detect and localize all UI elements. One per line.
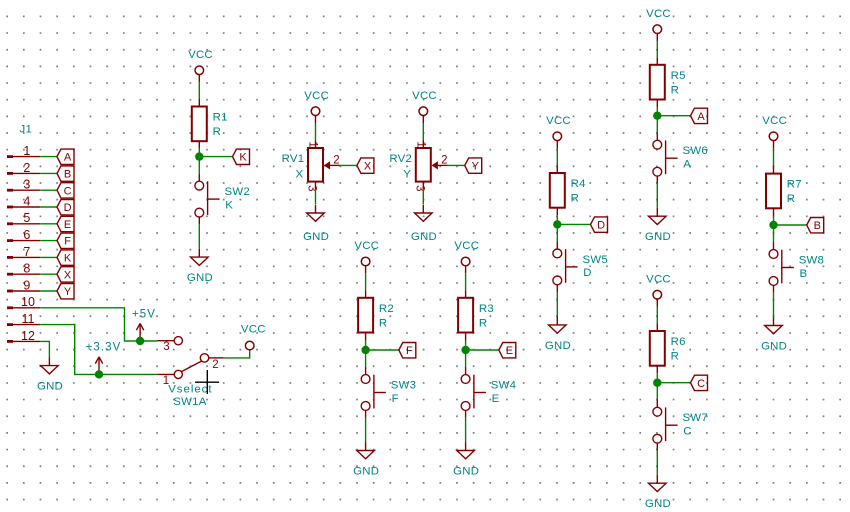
power +3.3V	[86, 341, 122, 374]
power VCC (RV1)	[304, 90, 329, 123]
svg-text:VCC: VCC	[241, 324, 266, 336]
switch SW8	[769, 242, 824, 293]
svg-text:R: R	[213, 126, 221, 138]
svg-text:VCC: VCC	[762, 115, 787, 127]
editor crosshair cursor	[195, 370, 219, 394]
connector J1 pin 10	[7, 295, 40, 309]
node junction (+3.3V rail)	[95, 370, 103, 378]
svg-text:GND: GND	[545, 340, 571, 352]
svg-text:R2: R2	[379, 303, 394, 315]
svg-text:VCC: VCC	[646, 8, 671, 20]
power VCC (R4 column)	[546, 115, 571, 148]
svg-text:GND: GND	[453, 466, 479, 478]
global label D (J1 pin 4)	[57, 200, 74, 215]
wire	[365, 340, 367, 367]
svg-text:12: 12	[21, 329, 35, 343]
svg-text:K: K	[225, 199, 233, 211]
wire	[556, 148, 558, 165]
svg-text:R6: R6	[671, 336, 686, 348]
connector J1 pin 9	[7, 278, 40, 292]
wire	[365, 273, 367, 290]
svg-text:F: F	[392, 393, 399, 405]
svg-text:B: B	[64, 169, 71, 181]
svg-text:2: 2	[333, 155, 339, 167]
wire	[557, 223, 590, 225]
global label F (J1 pin 6)	[57, 233, 74, 248]
wire	[40, 206, 57, 208]
svg-text:GND: GND	[37, 381, 63, 393]
node junction at R6/SW7	[653, 379, 661, 387]
svg-text:E: E	[64, 219, 71, 231]
global label Y (J1 pin 9)	[57, 284, 74, 299]
switch SW4	[461, 367, 516, 418]
svg-text:8: 8	[23, 262, 30, 276]
svg-text:5: 5	[23, 211, 30, 225]
potentiometer RV1	[282, 141, 340, 192]
svg-text:SW5: SW5	[583, 254, 608, 266]
node junction at R3/SW4	[461, 346, 469, 354]
svg-text:6: 6	[23, 228, 30, 242]
power VCC (R7 column)	[762, 115, 787, 148]
svg-text:D: D	[64, 202, 72, 214]
resistor R2	[358, 290, 394, 340]
ground GND (SW5)	[545, 317, 571, 352]
svg-text:B: B	[800, 268, 808, 280]
svg-text:10: 10	[21, 295, 35, 309]
global label X (J1 pin 8)	[57, 267, 74, 282]
wire (SW1A pin 2 to VCC)	[224, 350, 250, 358]
resistor R1	[192, 99, 228, 149]
wire	[656, 373, 658, 400]
svg-text:E: E	[506, 345, 513, 357]
svg-text:Y: Y	[403, 168, 411, 180]
switch SW6	[653, 133, 708, 184]
ground GND (J1 pin 12)	[37, 357, 63, 392]
svg-text:RV1: RV1	[282, 153, 305, 165]
wire	[448, 164, 465, 166]
node junction (+5V rail)	[136, 337, 144, 345]
ground GND (RV1)	[303, 205, 329, 243]
svg-text:X: X	[364, 161, 372, 173]
svg-text:VCC: VCC	[646, 273, 671, 285]
svg-text:SW8: SW8	[799, 254, 824, 266]
svg-text:GND: GND	[411, 231, 437, 243]
svg-text:3: 3	[163, 341, 169, 353]
global label C	[691, 375, 708, 390]
svg-text:F: F	[406, 345, 413, 357]
wire	[40, 256, 57, 258]
wire	[315, 123, 317, 141]
svg-text:GND: GND	[187, 272, 213, 284]
svg-text:2: 2	[212, 359, 218, 371]
connector J1 pin 12	[7, 329, 40, 343]
svg-text:VCC: VCC	[412, 90, 437, 102]
wire	[465, 273, 467, 290]
wire	[198, 149, 200, 174]
power +5V	[132, 308, 156, 341]
global label F	[399, 343, 416, 358]
svg-text:R: R	[479, 317, 487, 329]
svg-text:+5V: +5V	[132, 308, 156, 320]
svg-text:R4: R4	[571, 178, 586, 190]
svg-text:R3: R3	[479, 303, 494, 315]
wire	[340, 164, 357, 166]
wire	[422, 189, 424, 204]
wire	[774, 224, 807, 226]
wire	[40, 273, 57, 275]
svg-text:11: 11	[22, 312, 35, 326]
svg-text:D: D	[583, 267, 591, 279]
global label X (RV1 wiper)	[357, 158, 374, 173]
connector J1 pin 3	[7, 178, 40, 192]
svg-text:K: K	[64, 253, 72, 265]
resistor R5	[650, 57, 686, 107]
svg-text:SW7: SW7	[683, 412, 708, 424]
wire	[422, 123, 424, 141]
power VCC (RV2)	[412, 90, 437, 123]
switch SW7	[653, 400, 708, 451]
wire	[657, 115, 690, 117]
ground GND (SW4)	[453, 442, 479, 477]
svg-text:R: R	[671, 84, 679, 96]
wire	[199, 156, 232, 158]
ground GND (SW8)	[761, 317, 787, 352]
svg-text:VCC: VCC	[354, 240, 379, 252]
wire	[773, 148, 775, 166]
svg-text:3: 3	[23, 178, 30, 192]
svg-text:SW4: SW4	[491, 379, 516, 391]
svg-text:C: C	[683, 426, 691, 438]
global label Y (RV2 wiper)	[465, 158, 482, 173]
node junction at R5/SW6	[653, 112, 661, 120]
svg-text:GND: GND	[645, 498, 671, 510]
svg-text:SW2: SW2	[225, 186, 250, 198]
global label A	[691, 108, 708, 123]
wire	[465, 340, 467, 367]
svg-text:GND: GND	[645, 231, 671, 243]
node junction at R2/SW3	[361, 346, 369, 354]
resistor R7	[766, 166, 802, 216]
svg-text:R5: R5	[671, 70, 686, 82]
svg-text:R: R	[787, 193, 795, 205]
wire	[656, 41, 658, 57]
switch SW2	[195, 174, 250, 225]
ground GND (RV2)	[411, 205, 437, 243]
svg-text:K: K	[239, 152, 247, 164]
svg-text:1: 1	[307, 141, 319, 147]
wire	[656, 307, 658, 324]
wire (J1 pin 12 to GND)	[40, 341, 49, 357]
switch SW3	[361, 367, 416, 418]
svg-text:2: 2	[441, 155, 447, 167]
ground GND (SW3)	[353, 442, 379, 477]
power VCC (SW1A)	[241, 324, 266, 350]
connector J1 pin 4	[7, 194, 40, 208]
svg-text:9: 9	[23, 278, 30, 292]
power VCC (R2 column)	[354, 240, 379, 273]
power VCC (R6 column)	[646, 273, 671, 306]
wire	[466, 349, 499, 351]
svg-text:VCC: VCC	[454, 240, 479, 252]
svg-text:J1: J1	[20, 124, 33, 136]
resistor R3	[458, 290, 494, 340]
wire	[366, 349, 399, 351]
connector J1 pin 6	[7, 228, 40, 242]
connector J1 pin 7	[7, 245, 40, 259]
global label K (J1 pin 7)	[57, 250, 74, 265]
wire	[40, 189, 57, 191]
svg-text:VCC: VCC	[546, 115, 571, 127]
resistor R4	[550, 166, 586, 216]
node junction at R7/SW8	[769, 221, 777, 229]
node junction at R1/SW2	[195, 152, 203, 160]
svg-text:1: 1	[23, 144, 30, 158]
switch SW5	[553, 241, 608, 292]
svg-text:2: 2	[23, 161, 30, 175]
svg-text:F: F	[64, 236, 71, 248]
connector J1 pin 8	[7, 262, 40, 276]
svg-text:B: B	[814, 220, 821, 232]
connector J1 pin 11	[7, 312, 40, 326]
svg-text:SW6: SW6	[683, 145, 708, 157]
wire	[198, 82, 200, 99]
svg-text:SW1A: SW1A	[173, 396, 206, 408]
svg-text:R1: R1	[213, 112, 228, 124]
potentiometer RV2	[389, 141, 447, 192]
connector J1 pin 2	[7, 161, 40, 175]
power VCC (R1 column)	[188, 49, 213, 82]
wire	[365, 418, 367, 442]
wire	[656, 107, 658, 133]
svg-text:A: A	[697, 111, 705, 123]
wire	[656, 450, 658, 474]
wire	[773, 293, 775, 317]
svg-text:E: E	[492, 393, 500, 405]
wire	[40, 290, 57, 292]
wire (J1 pin 11 to +3.3V rail)	[40, 325, 157, 375]
wire	[40, 172, 57, 174]
global label E	[499, 343, 516, 358]
svg-text:C: C	[64, 185, 72, 197]
ground GND (SW7)	[645, 475, 671, 510]
global label D	[591, 217, 608, 232]
svg-text:R: R	[671, 351, 679, 363]
svg-text:RV2: RV2	[389, 153, 412, 165]
svg-text:Y: Y	[64, 286, 72, 298]
connector J1 pin 1	[7, 144, 40, 158]
svg-text:R: R	[379, 317, 387, 329]
svg-text:A: A	[64, 152, 72, 164]
wire	[40, 223, 57, 225]
wire	[40, 240, 57, 242]
svg-text:R7: R7	[787, 179, 802, 191]
svg-text:VCC: VCC	[304, 90, 329, 102]
global label C (J1 pin 3)	[57, 183, 74, 198]
wire	[315, 189, 317, 204]
wire	[657, 382, 690, 384]
node junction at R4/SW5	[553, 220, 561, 228]
SW1A lever	[181, 361, 201, 371]
wire	[198, 224, 200, 248]
wire	[656, 183, 658, 207]
connector J1 pin 5	[7, 211, 40, 225]
wire	[465, 418, 467, 442]
global label B	[807, 218, 824, 233]
wire	[556, 215, 558, 241]
svg-text:GND: GND	[303, 231, 329, 243]
wire	[556, 292, 558, 316]
svg-text:1: 1	[415, 141, 427, 147]
ground GND (SW2)	[187, 249, 213, 284]
ground GND (SW6)	[645, 208, 671, 243]
wire (J1 pin 10 to +5V rail)	[40, 308, 157, 341]
global label A (J1 pin 1)	[57, 149, 74, 164]
global label B (J1 pin 2)	[57, 166, 74, 181]
power VCC (R3 column)	[454, 240, 479, 273]
svg-text:D: D	[597, 220, 605, 232]
wire	[773, 216, 775, 242]
global label E (J1 pin 5)	[57, 216, 74, 231]
svg-text:+3.3V: +3.3V	[86, 341, 122, 353]
svg-text:X: X	[296, 168, 304, 180]
svg-text:A: A	[683, 159, 691, 171]
wire	[40, 156, 57, 158]
svg-text:4: 4	[23, 194, 30, 208]
svg-text:7: 7	[23, 245, 30, 259]
svg-text:C: C	[697, 378, 705, 390]
resistor R6	[650, 324, 686, 374]
svg-text:VCC: VCC	[188, 49, 213, 61]
switch SW1A (Vselect)	[157, 337, 223, 408]
svg-text:GND: GND	[353, 466, 379, 478]
svg-text:GND: GND	[761, 341, 787, 353]
svg-text:Y: Y	[472, 161, 480, 173]
global label K	[233, 149, 250, 164]
svg-text:X: X	[64, 269, 72, 281]
svg-text:SW3: SW3	[391, 379, 416, 391]
power VCC (R5 column)	[646, 8, 671, 41]
svg-text:Vselect: Vselect	[168, 383, 212, 395]
svg-text:R: R	[571, 193, 579, 205]
